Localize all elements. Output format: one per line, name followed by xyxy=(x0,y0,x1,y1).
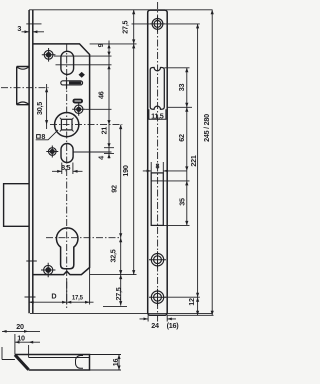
svg-text:D: D xyxy=(51,291,56,300)
svg-text:11,5: 11,5 xyxy=(151,111,164,120)
diamond marker xyxy=(79,72,85,78)
svg-text:4: 4 xyxy=(97,156,106,160)
extension line for bottom 27,5 xyxy=(103,306,127,308)
screw hole S3 xyxy=(46,146,58,158)
latch opening xyxy=(150,68,164,110)
svg-text:21: 21 xyxy=(99,127,108,135)
svg-text:8: 8 xyxy=(156,162,160,171)
svg-text:33: 33 xyxy=(177,84,186,92)
profile section (bent faceplate lip) xyxy=(2,355,90,371)
svg-text:3: 3 xyxy=(17,24,21,33)
lock case outline xyxy=(33,44,90,275)
screw hole S4 xyxy=(41,263,55,277)
extension at screw A level xyxy=(132,23,200,25)
dimension 3 (faceplate thickness) arrows xyxy=(22,31,45,33)
dimension line x=133.7 (27,5 / 190) xyxy=(132,10,135,275)
square hole 8mm xyxy=(60,118,74,132)
extension line through oval center xyxy=(56,64,112,66)
screw hole S1 xyxy=(42,48,56,62)
follower centerline xyxy=(50,124,122,126)
svg-text:8,5: 8,5 xyxy=(61,163,70,172)
svg-text:190: 190 xyxy=(121,165,130,176)
extension at screw S2 level xyxy=(85,108,111,110)
faceplate screw ticks (bottom) xyxy=(25,261,37,297)
dimension 10 xyxy=(15,333,40,343)
dimension line x=186.8 (33/62/35) xyxy=(185,68,188,226)
long bottom extension line xyxy=(30,312,213,314)
svg-text:27,5: 27,5 xyxy=(114,287,123,300)
boxed label 11,5 xyxy=(149,109,166,120)
case top extension to the right xyxy=(90,43,137,45)
svg-text:32,5: 32,5 xyxy=(109,249,118,262)
svg-text:30,5: 30,5 xyxy=(35,102,44,115)
dimension 8,5 xyxy=(52,163,83,175)
top extension line across views xyxy=(29,9,212,11)
plate centerline xyxy=(157,2,159,322)
label square-8 with leader xyxy=(36,130,58,141)
follower (hub) circle xyxy=(55,113,79,137)
screw hole S2 xyxy=(72,103,85,116)
dimension line x=212.2 (245/280) xyxy=(211,10,214,316)
screw hole A xyxy=(150,16,166,32)
svg-text:16: 16 xyxy=(111,359,120,367)
svg-text:27,5: 27,5 xyxy=(120,20,129,33)
oval slot (top) xyxy=(61,51,74,74)
svg-text:35: 35 xyxy=(177,198,186,206)
svg-text:9: 9 xyxy=(96,43,105,47)
faceplate (left view, edge-on) xyxy=(29,10,33,313)
svg-text:12: 12 xyxy=(187,298,196,306)
svg-text:24: 24 xyxy=(151,321,159,330)
svg-text:(16): (16) xyxy=(167,321,180,330)
dimension line x=197.6 (221/12) xyxy=(196,24,199,315)
latch centerline (dash-dot) xyxy=(1,87,49,89)
dimension 16 xyxy=(90,355,122,371)
screw hole C xyxy=(149,289,166,306)
plate outline xyxy=(148,10,168,315)
dimension 24 under plate xyxy=(140,315,180,330)
case right edge extension down to D-dim xyxy=(89,268,91,305)
svg-text:20: 20 xyxy=(16,322,24,331)
latch bolt tab (left) xyxy=(17,67,29,105)
horizontal slot with dark insert xyxy=(61,77,83,90)
screw hole B xyxy=(149,251,166,268)
svg-text:245 / 280: 245 / 280 xyxy=(202,114,211,142)
svg-text:17,5: 17,5 xyxy=(72,296,84,302)
dimension 8 (slot width) xyxy=(143,162,187,173)
chain dimension line x=109 (9/46/21/4) xyxy=(104,41,114,159)
euro profile cylinder hole xyxy=(56,228,78,269)
cylinder centerline xyxy=(46,237,121,239)
dimension line x=120.7 (92 / 32,5 / 27,5) xyxy=(119,125,122,306)
svg-text:46: 46 xyxy=(96,91,105,99)
extension at screw C level xyxy=(165,296,200,298)
extension for 9 (screw level) xyxy=(54,55,112,57)
svg-text:92: 92 xyxy=(109,185,118,193)
label 30,5 xyxy=(35,84,51,129)
lower tab (left box) xyxy=(4,184,29,227)
svg-text:10: 10 xyxy=(17,333,25,342)
extension from oval to chain dim xyxy=(73,151,111,153)
case bottom extension to the right xyxy=(90,274,137,276)
oval slot (bottom) xyxy=(61,144,73,163)
dimension D / 17,5 xyxy=(29,279,93,305)
dimension 20 xyxy=(2,322,40,359)
screw center tick on faceplate (top) xyxy=(26,23,41,25)
svg-text:62: 62 xyxy=(177,134,186,142)
small dark slot above screw S2 xyxy=(73,99,84,104)
lower slot (8 wide) xyxy=(151,173,163,226)
svg-text:221: 221 xyxy=(189,155,198,166)
vertical centerline of lock (dash-dot) xyxy=(66,44,68,308)
extensions right view xyxy=(164,67,189,69)
